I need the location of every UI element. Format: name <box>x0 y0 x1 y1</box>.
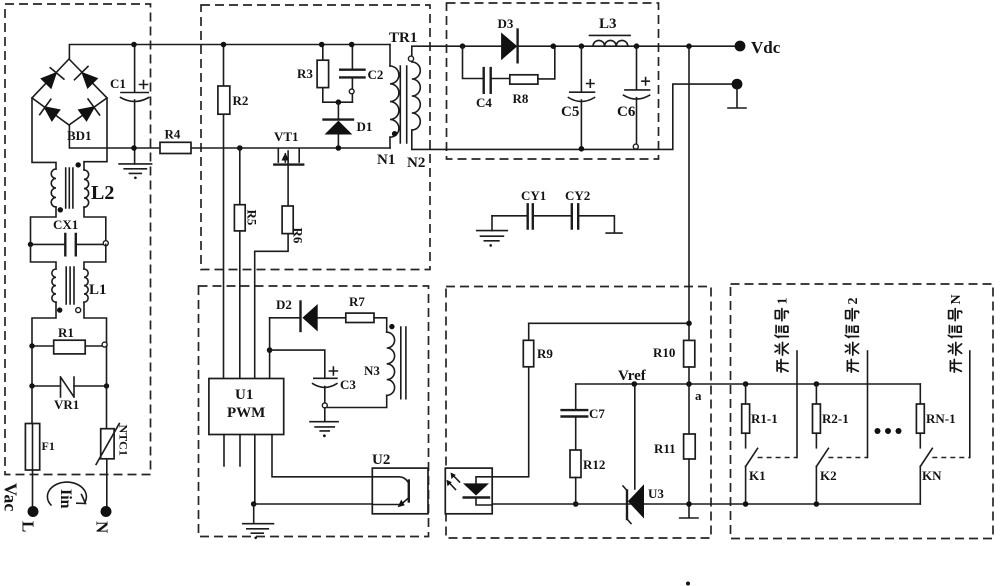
svg-text:N: N <box>949 294 964 304</box>
svg-text:PWM: PWM <box>227 405 265 421</box>
node: C3 branch junction <box>267 347 273 353</box>
dashed box: PWM control section <box>199 286 429 537</box>
dashed box: primary switching section <box>201 5 430 270</box>
svg-text:R6: R6 <box>291 228 306 244</box>
node: Vref-R10/R11 junction (a) <box>686 381 692 387</box>
wire: U1 to optocoupler base drive <box>272 435 372 477</box>
common-mode choke L1 <box>31 244 107 346</box>
ground below C1 <box>119 164 152 179</box>
node: C5 top junction <box>579 43 585 49</box>
svg-text:VT1: VT1 <box>274 129 299 144</box>
svg-text:C7: C7 <box>589 406 605 421</box>
dashed link K1 to signal 1 <box>758 457 797 459</box>
dashed box: input EMI filter section <box>5 4 151 475</box>
node: R11-ground rail junction <box>686 501 692 507</box>
resistor R11 <box>680 384 698 518</box>
node: C4 branch junction <box>460 43 466 49</box>
dashed box: switch load section <box>731 284 994 539</box>
label switch signal 2 (rotated) <box>845 298 861 373</box>
resistor R8 <box>510 46 555 84</box>
svg-text:R3: R3 <box>297 66 313 81</box>
fuse F1 <box>25 386 39 507</box>
node: R12-ground rail junction <box>573 501 579 507</box>
resistor R5 <box>234 148 245 379</box>
svg-text:Vdc: Vdc <box>751 38 781 57</box>
wire: secondary bottom rail <box>446 84 732 149</box>
capacitor CY2 <box>572 204 622 233</box>
svg-text:R7: R7 <box>349 294 365 309</box>
svg-text:Vac: Vac <box>1 483 21 511</box>
wire: U1 pin stubs below <box>224 435 240 467</box>
svg-text:N3: N3 <box>364 363 380 378</box>
svg-text:CY1: CY1 <box>521 188 546 203</box>
resistor R4 <box>160 142 191 153</box>
resistor R7 <box>346 313 374 322</box>
label switch signal N (rotated) <box>948 294 964 372</box>
branch RN-1/KN <box>916 384 932 504</box>
transformer TR1 primary N1 <box>390 45 399 149</box>
svg-text:L1: L1 <box>89 282 107 298</box>
node: drain wire-D1 junction <box>336 145 342 151</box>
capacitor C4 <box>463 46 510 93</box>
node: Vref-U3 junction <box>632 381 638 387</box>
capacitor C6 <box>624 46 650 149</box>
svg-text:N2: N2 <box>407 155 425 171</box>
svg-text:L: L <box>19 521 38 532</box>
node: bus-R3 junction <box>319 42 325 48</box>
svg-text:R4: R4 <box>165 127 181 142</box>
node: R8 top junction <box>551 43 557 49</box>
svg-text:U2: U2 <box>372 452 390 468</box>
capacitor C2 <box>340 45 364 103</box>
node: feedback-R9 junction <box>686 321 692 327</box>
svg-text:D2: D2 <box>276 297 292 312</box>
svg-text:RN-1: RN-1 <box>926 411 956 426</box>
shunt regulator U3 <box>623 384 644 524</box>
svg-text:TR1: TR1 <box>389 30 417 46</box>
MOSFET VT1 <box>274 149 303 206</box>
transformer TR1 secondary N2 <box>408 46 446 149</box>
terminal output return <box>728 79 746 108</box>
capacitor C5 <box>568 46 594 149</box>
svg-text:CX1: CX1 <box>53 217 78 232</box>
capacitor C7 <box>562 384 588 450</box>
svg-text:VR1: VR1 <box>54 397 79 412</box>
wire: feedback line down to R10 <box>688 46 690 340</box>
node: lower rail-C1/ground junction <box>131 145 137 151</box>
wire: R3/C2 bottom join <box>323 101 353 103</box>
IC U1 PWM controller <box>209 379 284 435</box>
optocoupler U2 LED side <box>445 468 492 514</box>
svg-text:R11: R11 <box>654 441 676 456</box>
node: snubber-D1 junction <box>336 99 342 105</box>
svg-text:CY2: CY2 <box>565 188 590 203</box>
dashed link K2 to signal 2 <box>828 457 867 459</box>
ground below U1 <box>243 504 274 539</box>
svg-text:D3: D3 <box>498 16 514 31</box>
svg-text:R1-1: R1-1 <box>751 411 778 426</box>
node: ground wire junction <box>251 501 257 507</box>
wire: ground rail to optocoupler emitter <box>254 503 373 505</box>
varistor VR1 <box>29 346 109 397</box>
current arrow Iin <box>47 482 86 505</box>
svg-text:Vref: Vref <box>618 368 647 384</box>
dashed box: feedback section <box>446 287 711 539</box>
svg-text:N1: N1 <box>377 152 395 168</box>
resistor R2 <box>218 45 230 379</box>
svg-text:C1: C1 <box>110 76 126 91</box>
node: bus-R2 junction <box>221 42 227 48</box>
svg-text:U1: U1 <box>235 387 253 403</box>
wire: switch signal 2 line <box>867 351 869 458</box>
branch R2-1/K2 <box>813 381 829 507</box>
node: C5 bottom junction <box>579 146 585 152</box>
ground for CY1 <box>477 216 508 247</box>
svg-text:KN: KN <box>922 468 942 483</box>
inductor L3 <box>590 35 631 46</box>
capacitor CX1 <box>28 234 109 255</box>
capacitor C3 <box>270 350 338 422</box>
svg-text:C4: C4 <box>476 95 492 110</box>
node: feedback tap on Vdc rail <box>686 43 692 49</box>
dashed link KN to signal N <box>932 457 970 459</box>
node: bus-C2 junction <box>349 42 355 48</box>
optocoupler U2 transistor side <box>372 468 428 514</box>
svg-text:F1: F1 <box>42 439 55 453</box>
svg-text:BD1: BD1 <box>67 128 92 143</box>
svg-text:C3: C3 <box>340 377 356 392</box>
capacitor C1 <box>121 45 149 164</box>
svg-text:2: 2 <box>846 298 861 305</box>
svg-text:NTC1: NTC1 <box>117 425 131 456</box>
svg-text:R2: R2 <box>233 93 249 108</box>
svg-text:N: N <box>93 521 112 534</box>
node: gate wire-R5 junction <box>237 145 243 151</box>
wire: switch signal 1 line <box>796 351 798 458</box>
svg-text:1: 1 <box>776 298 791 305</box>
svg-text:R5: R5 <box>245 210 260 226</box>
svg-text:R9: R9 <box>537 346 553 361</box>
wire: DC bus from bridge + output to TR1 primary top <box>69 45 390 60</box>
terminal L <box>28 506 39 517</box>
wire: D2 cathode down to U1 <box>269 318 271 379</box>
diode D3 <box>501 30 517 63</box>
terminal N <box>101 506 112 517</box>
node: C6 top junction <box>634 43 640 49</box>
ellipsis dots <box>875 428 902 434</box>
svg-text:R10: R10 <box>653 345 675 360</box>
resistor R1 <box>29 340 107 354</box>
terminal Vdc <box>735 41 746 52</box>
svg-text:D1: D1 <box>357 119 373 134</box>
wire: secondary ground rail <box>492 503 920 505</box>
svg-text:U3: U3 <box>648 486 664 501</box>
transformer TR1 core <box>400 66 406 143</box>
resistor R6 <box>255 206 294 379</box>
bridge rectifier BD1 <box>32 59 107 125</box>
diode D2 <box>270 302 346 332</box>
small mark bottom center <box>686 582 690 586</box>
resistor R12 <box>570 450 581 504</box>
node: bus-C1 junction <box>131 42 137 48</box>
ground below C3 <box>310 422 338 437</box>
common-mode choke L2 <box>31 98 108 245</box>
resistor R3 <box>317 45 329 103</box>
svg-text:R8: R8 <box>513 91 529 106</box>
svg-text:K2: K2 <box>820 468 837 483</box>
dashed box: output rectifier section <box>447 3 659 159</box>
svg-text:a: a <box>695 388 702 403</box>
branch R1-1/K1 <box>742 381 758 507</box>
label switch signal 1 (rotated) <box>775 298 791 373</box>
svg-text:R12: R12 <box>583 457 605 472</box>
wire: U1 ground lead <box>254 435 256 505</box>
svg-text:R1: R1 <box>58 325 74 340</box>
svg-text:C6: C6 <box>617 104 636 120</box>
auxiliary winding N3 <box>327 318 406 408</box>
diode D1 <box>324 102 354 148</box>
svg-text:L3: L3 <box>599 16 617 32</box>
svg-text:L2: L2 <box>91 182 114 204</box>
svg-text:R2-1: R2-1 <box>822 411 849 426</box>
resistor R10 <box>684 340 695 384</box>
svg-text:C2: C2 <box>368 67 384 82</box>
wire: primary lower rail from bridge bottom through R4 to VT1/TR1 <box>69 125 390 148</box>
wire: Vref rail <box>576 383 921 385</box>
resistor R9 <box>492 323 689 477</box>
svg-text:Iin: Iin <box>57 489 74 509</box>
capacitor CY1 <box>492 204 572 228</box>
svg-text:K1: K1 <box>749 468 766 483</box>
thermistor NTC1 <box>96 386 119 506</box>
wire: secondary top rail to Vdc <box>446 45 735 47</box>
wire: switch signal N line <box>969 351 971 458</box>
svg-text:C5: C5 <box>561 104 579 120</box>
